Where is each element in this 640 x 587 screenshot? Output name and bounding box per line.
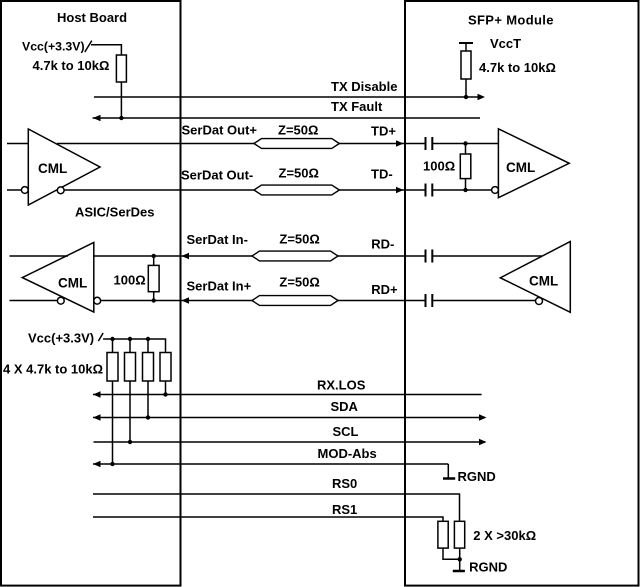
- wire MOD-Abs to ground: [447, 464, 449, 478]
- resistor R6: [125, 353, 136, 382]
- svg-text:TX Fault: TX Fault: [331, 99, 383, 114]
- arrow TX Fault left: [93, 115, 101, 121]
- arrow TD- right: [396, 187, 404, 193]
- capacitor C4: [426, 294, 433, 307]
- wire SDA: [93, 417, 485, 419]
- node rail dot 2: [128, 337, 132, 341]
- transmission line TL3: [252, 251, 338, 261]
- wire U3 input- from border: [101, 300, 252, 302]
- wire TL2 to TD- cap: [339, 189, 425, 191]
- host board box: [1, 1, 181, 586]
- node junction C2 / R3: [463, 188, 467, 192]
- op-amp U4 SFP TX CML: [500, 242, 570, 313]
- svg-text:RD-: RD-: [371, 237, 394, 252]
- op-amp U2 SFP RX CML: [498, 129, 569, 198]
- node rail dot 1: [110, 337, 114, 341]
- arrow TD+ right: [396, 140, 404, 146]
- resistor R5: [107, 353, 118, 382]
- wire R7 to SDA: [147, 381, 149, 418]
- wire Vcc rail: [103, 339, 165, 353]
- svg-text:MOD-Abs: MOD-Abs: [318, 446, 377, 461]
- resistor R7: [143, 353, 154, 382]
- svg-text:RX.LOS: RX.LOS: [317, 378, 366, 393]
- node U4 output bubble: [536, 298, 543, 305]
- ground RGND MOD-Abs: [443, 477, 455, 480]
- capacitor C1: [426, 137, 433, 150]
- wire R4 top: [153, 256, 155, 265]
- arrow TX Disable right: [478, 94, 486, 100]
- svg-text:TD+: TD+: [371, 124, 396, 139]
- SFP+ module box: [405, 1, 639, 586]
- wire rail to R7: [147, 339, 149, 353]
- wire TL1 to TD+ cap: [339, 143, 425, 145]
- wire R2 down to TX Disable: [465, 79, 467, 97]
- resistor R10 RS0: [454, 521, 464, 548]
- node junction R6 / SCL: [128, 440, 132, 444]
- node junction R8 / RX.LOS: [163, 392, 167, 396]
- wire U3 output-: [10, 300, 58, 302]
- svg-text:RD+: RD+: [371, 282, 398, 297]
- node junction R1 / TX Fault: [119, 116, 123, 120]
- svg-text:Host Board: Host Board: [57, 10, 127, 25]
- resistor R8: [160, 353, 171, 382]
- slash Vcc top: [85, 41, 92, 52]
- svg-text:TX Disable: TX Disable: [331, 79, 397, 94]
- svg-text:Z=50Ω: Z=50Ω: [279, 232, 319, 247]
- wire rail to R6: [129, 339, 131, 353]
- svg-text:CML: CML: [529, 274, 558, 289]
- svg-text:SDA: SDA: [331, 399, 359, 414]
- wire RS1: [93, 517, 443, 521]
- svg-text:RS1: RS1: [332, 502, 357, 517]
- wire MOD-Abs: [93, 463, 448, 465]
- capacitor C3: [426, 250, 433, 263]
- node U1 input bubble: [21, 187, 28, 194]
- node junction VccT resistor / TX Disable: [464, 95, 468, 99]
- wire R3 bottom: [465, 179, 467, 190]
- wire TX Disable: [94, 96, 483, 98]
- node junction R5 / MOD-Abs: [110, 462, 114, 466]
- wire U3 output+: [10, 255, 69, 257]
- wire SerDat Out+ from U1: [57, 143, 254, 145]
- wire R6 to SCL: [129, 381, 131, 442]
- svg-text:SerDat In+: SerDat In+: [187, 279, 252, 294]
- node junction R4 bottom: [152, 298, 156, 302]
- svg-text:100Ω: 100Ω: [423, 159, 455, 174]
- svg-text:2 X >30kΩ: 2 X >30kΩ: [473, 528, 536, 543]
- node U3 input bubble: [94, 297, 101, 304]
- op-amp U3 host RX CML: [22, 243, 94, 313]
- svg-text:RGND: RGND: [458, 469, 496, 484]
- svg-text:Z=50Ω: Z=50Ω: [279, 166, 319, 181]
- wire R9 bottom to junction: [443, 548, 460, 559]
- svg-text:CML: CML: [58, 276, 87, 291]
- resistor R2 VccT pull-up: [461, 51, 471, 79]
- svg-text:CML: CML: [506, 160, 535, 175]
- wire U3 input+ from border: [94, 255, 252, 257]
- svg-text:Z=50Ω: Z=50Ω: [279, 275, 319, 290]
- node rail dot 3: [146, 337, 150, 341]
- wire TL3 to C3: [338, 255, 426, 257]
- node junction R4 top: [152, 254, 156, 258]
- wire R8 to RX.LOS: [165, 381, 167, 395]
- wire C1 to U2: [432, 143, 498, 145]
- capacitor C2: [426, 184, 433, 197]
- wire RS0: [93, 494, 460, 521]
- svg-text:SFP+ Module: SFP+ Module: [468, 13, 554, 28]
- wire U1 input+: [7, 143, 28, 145]
- svg-text:RGND: RGND: [469, 560, 507, 575]
- svg-text:Vcc(+3.3V): Vcc(+3.3V): [22, 40, 85, 54]
- transmission line TL1: [254, 139, 339, 149]
- svg-text:Vcc(+3.3V): Vcc(+3.3V): [28, 330, 94, 345]
- svg-text:SCL: SCL: [333, 424, 359, 439]
- node junction R7 / SDA: [146, 415, 150, 419]
- arrow SDA right: [479, 414, 487, 420]
- wire SCL: [94, 441, 486, 443]
- resistor R4 100 ohm host: [148, 265, 159, 291]
- resistor R3 100 ohm SFP: [460, 154, 471, 179]
- wire R10 bottom to ground: [459, 548, 461, 571]
- wire RX.LOS: [93, 394, 482, 396]
- svg-text:VccT: VccT: [490, 36, 521, 51]
- resistor R1 host pull-up: [116, 55, 126, 82]
- wire R5 to MOD-Abs: [112, 381, 114, 464]
- wire C2 to U2 bubble: [432, 189, 492, 191]
- node U3 output bubble: [57, 297, 64, 304]
- svg-text:SerDat Out-: SerDat Out-: [181, 168, 253, 183]
- slash Vcc bottom: [98, 333, 103, 341]
- arrow SCL right: [479, 439, 487, 445]
- wire R3 top: [465, 144, 467, 155]
- svg-text:ASIC/SerDes: ASIC/SerDes: [75, 205, 154, 220]
- wire Vcc to R1: [91, 45, 121, 55]
- svg-text:SerDat Out+: SerDat Out+: [182, 123, 258, 138]
- arrow SerDat In+ left: [182, 297, 190, 303]
- wire C4 to U4 bubble: [432, 300, 535, 302]
- wire TX Fault: [93, 117, 481, 119]
- power VccT symbol: [459, 43, 473, 51]
- arrow RX.LOS left: [93, 391, 101, 397]
- svg-text:4.7k to 10kΩ: 4.7k to 10kΩ: [33, 58, 110, 73]
- arrow SDA left: [93, 414, 101, 420]
- arrow MOD-Abs left: [93, 461, 101, 467]
- wire R4 bottom: [153, 292, 155, 301]
- transmission line TL4: [252, 296, 338, 306]
- wire C3 to U4: [432, 255, 542, 257]
- wire rail to R5: [112, 339, 114, 353]
- node U2 input bubble: [492, 187, 499, 194]
- node junction C1 / R3: [463, 141, 467, 145]
- svg-text:TD-: TD-: [371, 167, 393, 182]
- wire TL4 to C4: [338, 300, 426, 302]
- node U1 output bubble: [57, 187, 64, 194]
- ground RGND bottom: [453, 570, 465, 573]
- node junction R9/R10: [458, 557, 462, 561]
- transmission line TL2: [254, 185, 339, 195]
- svg-text:4 X 4.7k to 10kΩ: 4 X 4.7k to 10kΩ: [3, 362, 103, 377]
- op-amp U1 host TX CML: [28, 129, 100, 205]
- svg-text:CML: CML: [38, 161, 67, 176]
- svg-text:SerDat In-: SerDat In-: [187, 232, 248, 247]
- wire R1 down to TX Fault: [120, 82, 122, 118]
- svg-text:4.7k to 10kΩ: 4.7k to 10kΩ: [479, 60, 556, 75]
- arrow SerDat In- left: [182, 253, 190, 259]
- wire U1 input-: [7, 189, 21, 191]
- svg-text:100Ω: 100Ω: [114, 273, 146, 288]
- resistor R9 RS1: [438, 521, 448, 548]
- svg-text:RS0: RS0: [332, 476, 357, 491]
- wire SerDat Out- from U1: [64, 189, 254, 191]
- svg-text:Z=50Ω: Z=50Ω: [278, 123, 318, 138]
